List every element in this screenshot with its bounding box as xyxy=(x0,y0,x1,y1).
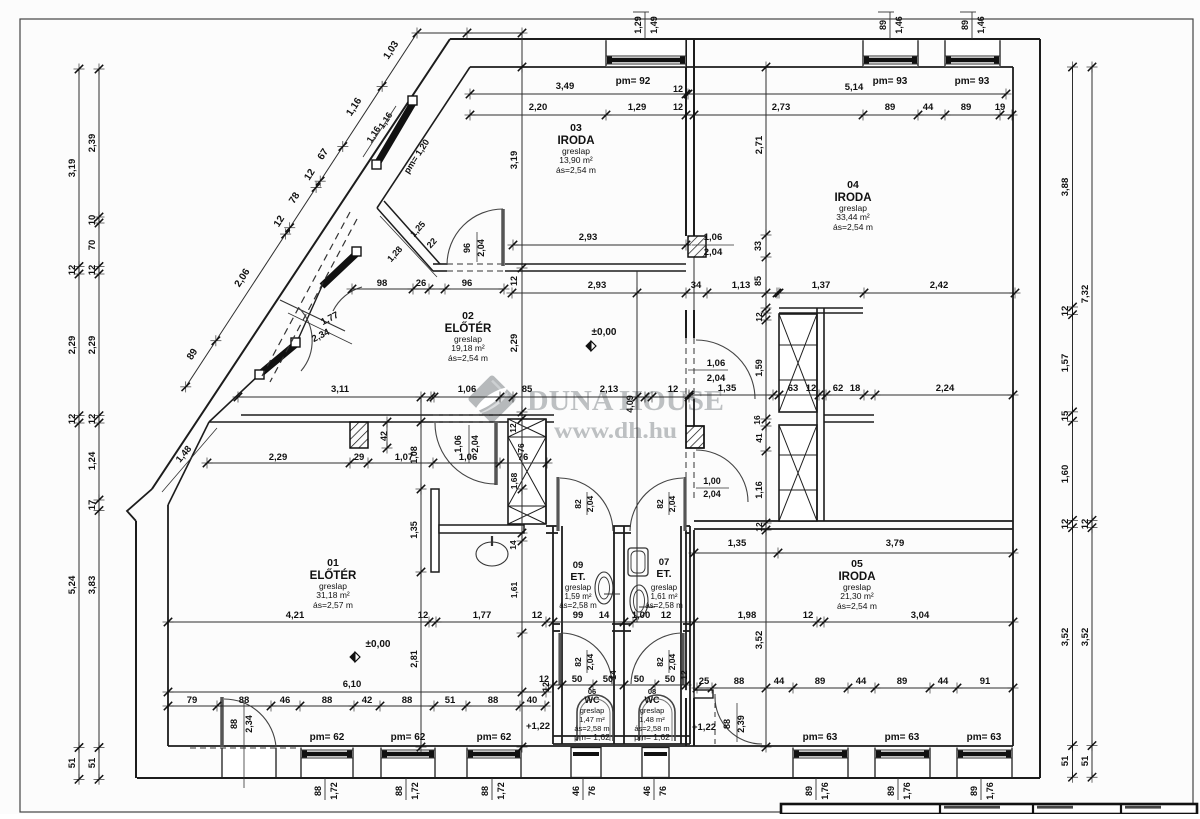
svg-text:2,71: 2,71 xyxy=(754,135,765,154)
svg-text:1,06: 1,06 xyxy=(707,358,726,369)
svg-text:pm= 1,62: pm= 1,62 xyxy=(574,732,610,742)
washbasin in room 01 xyxy=(476,542,508,566)
vertical dim line x522 xyxy=(521,33,523,747)
window W2 in diagonal wall xyxy=(322,247,361,286)
ET room 09 door leaf+arc xyxy=(556,477,559,531)
kitchen nook walls in room 01 xyxy=(431,489,439,572)
svg-text:50: 50 xyxy=(572,674,583,685)
svg-text:2,04: 2,04 xyxy=(476,239,486,257)
left chain A xyxy=(78,69,80,779)
inner face of diagonal wall xyxy=(377,67,470,208)
svg-text:88: 88 xyxy=(313,786,323,796)
toilet in room 07 xyxy=(630,585,648,617)
svg-text:5,14: 5,14 xyxy=(845,82,864,93)
svg-text:4,09: 4,09 xyxy=(625,395,635,413)
svg-text:89: 89 xyxy=(969,786,979,796)
WC small window right xyxy=(642,748,669,778)
svg-text:03: 03 xyxy=(570,122,582,134)
svg-text:1,35: 1,35 xyxy=(718,383,737,394)
svg-text:pm= 92: pm= 92 xyxy=(616,76,651,87)
svg-text:3,04: 3,04 xyxy=(911,610,930,621)
svg-text:82: 82 xyxy=(655,657,665,667)
row 79-40 xyxy=(168,705,545,707)
hall dashed line xyxy=(554,396,686,398)
svg-text:1,24: 1,24 xyxy=(87,451,98,470)
entrance door bottom-left: opening + leaf + arc xyxy=(222,748,276,778)
partition wall room02 corridor (1,25/1,28) xyxy=(377,208,433,271)
hatched pier in spine wall xyxy=(686,426,704,448)
svg-text:greslap: greslap xyxy=(651,583,678,592)
svg-text:ás=2,57 m: ás=2,57 m xyxy=(313,600,353,610)
svg-text:3,52: 3,52 xyxy=(1080,628,1091,647)
svg-text:1,77: 1,77 xyxy=(473,610,492,621)
svg-text:2,04: 2,04 xyxy=(667,653,677,670)
svg-text:88: 88 xyxy=(734,676,745,687)
svg-text:1,37: 1,37 xyxy=(812,280,831,291)
svg-text:2,04: 2,04 xyxy=(585,495,595,512)
svg-text:greslap: greslap xyxy=(565,583,592,592)
row 2,20-19 xyxy=(470,114,1012,116)
svg-text:09: 09 xyxy=(573,560,584,571)
vertical dim line x637 xyxy=(636,271,638,622)
svg-text:01: 01 xyxy=(327,557,339,569)
svg-text:1,76: 1,76 xyxy=(985,782,995,800)
svg-text:7,32: 7,32 xyxy=(1080,285,1091,304)
row 4,21-3,04 xyxy=(168,621,1013,623)
svg-text:ás=2,54 m: ás=2,54 m xyxy=(833,222,873,232)
svg-text:18: 18 xyxy=(850,383,861,394)
svg-text:42: 42 xyxy=(362,695,373,706)
door hall-05 corridor: dashed + arc xyxy=(685,452,687,500)
svg-text:12: 12 xyxy=(661,610,672,621)
svg-text:19,18 m²: 19,18 m² xyxy=(451,343,485,353)
svg-text:02: 02 xyxy=(462,310,474,322)
WC 08 door arc xyxy=(681,633,684,685)
wall stub above shafts xyxy=(779,307,863,309)
wall stub between shafts xyxy=(824,414,874,416)
svg-text:pm= 1,62: pm= 1,62 xyxy=(634,732,670,742)
svg-text:1,76: 1,76 xyxy=(820,782,830,800)
svg-text:1,08: 1,08 xyxy=(409,446,419,464)
svg-text:05: 05 xyxy=(851,558,863,570)
svg-text:3,19: 3,19 xyxy=(67,159,78,178)
row 2,29-76 xyxy=(207,462,547,464)
svg-text:3,88: 3,88 xyxy=(1060,178,1071,197)
svg-text:1,06: 1,06 xyxy=(704,232,723,243)
svg-text:12: 12 xyxy=(532,610,543,621)
svg-text:1,76: 1,76 xyxy=(902,782,912,800)
wall between room04 and room05 xyxy=(694,520,1013,522)
svg-text:25: 25 xyxy=(699,676,710,687)
svg-text:33: 33 xyxy=(753,241,763,251)
outer wall: right xyxy=(1039,39,1041,778)
svg-text:pm= 62: pm= 62 xyxy=(391,732,426,743)
svg-text:51: 51 xyxy=(1080,755,1091,766)
watermark Duna House logo xyxy=(467,374,516,423)
svg-text:89: 89 xyxy=(897,676,908,687)
svg-text:1,35: 1,35 xyxy=(728,538,747,549)
svg-text:46: 46 xyxy=(280,695,291,706)
door room03: leaf + arc xyxy=(501,209,505,266)
svg-text:26: 26 xyxy=(416,278,427,289)
svg-text:ás=2,54 m: ás=2,54 m xyxy=(837,601,877,611)
window pm62b bottom wall xyxy=(381,748,435,778)
svg-text:2,29: 2,29 xyxy=(67,336,78,355)
window pm62a bottom wall xyxy=(301,748,353,778)
svg-text:1,46: 1,46 xyxy=(894,16,904,34)
old wall dashed pair along diagonal xyxy=(262,212,350,376)
svg-text:ET.: ET. xyxy=(656,568,671,580)
wall between room01 and room02 (y415) xyxy=(241,414,554,416)
svg-text:17: 17 xyxy=(87,500,98,511)
svg-text:70: 70 xyxy=(87,240,98,251)
row 5,14 xyxy=(688,93,1006,95)
svg-text:12: 12 xyxy=(87,265,98,276)
ET block middle wall xyxy=(613,526,615,744)
svg-text:29: 29 xyxy=(354,452,365,463)
svg-text:12: 12 xyxy=(754,522,764,532)
window pm63a bottom wall xyxy=(793,748,848,778)
svg-text:1,06: 1,06 xyxy=(458,384,477,395)
svg-text:2,04: 2,04 xyxy=(667,495,677,512)
room05 west wall xyxy=(685,530,687,690)
svg-text:13,90 m²: 13,90 m² xyxy=(559,155,593,165)
window pm63b bottom wall xyxy=(875,748,930,778)
window pm63c bottom wall xyxy=(957,748,1012,778)
svg-text:50: 50 xyxy=(634,674,645,685)
svg-text:±0,00: ±0,00 xyxy=(366,639,391,650)
svg-text:ás=2,54 m: ás=2,54 m xyxy=(556,165,596,175)
svg-text:40: 40 xyxy=(527,695,538,706)
svg-text:44: 44 xyxy=(774,676,785,687)
window head dim pairs top xyxy=(644,12,646,39)
wall room01 / ET block xyxy=(545,419,547,524)
svg-text:89: 89 xyxy=(815,676,826,687)
svg-text:1,47 m²: 1,47 m² xyxy=(579,715,605,724)
svg-text:12: 12 xyxy=(754,312,764,322)
spine wall lower segment to bottom wall xyxy=(685,698,687,746)
svg-text:3,52: 3,52 xyxy=(754,631,765,650)
door room03: dashed opening xyxy=(447,263,503,265)
svg-text:16: 16 xyxy=(752,415,762,425)
row 1,35-3,79 xyxy=(694,552,1013,554)
svg-text:2,04: 2,04 xyxy=(707,373,726,384)
right shafts next to rooms 04/05 xyxy=(779,314,817,412)
svg-text:1,68: 1,68 xyxy=(509,472,519,489)
svg-text:12: 12 xyxy=(673,84,683,94)
svg-text:88: 88 xyxy=(480,786,490,796)
svg-text:1,16: 1,16 xyxy=(754,481,764,499)
svg-text:15: 15 xyxy=(1060,410,1071,421)
svg-text:12: 12 xyxy=(508,423,518,433)
svg-text:1,29: 1,29 xyxy=(633,16,643,34)
svg-text:42: 42 xyxy=(379,431,389,441)
row 2,93-2,42 xyxy=(512,292,1015,294)
svg-text:pm= 93: pm= 93 xyxy=(955,76,990,87)
svg-text:1,48 m²: 1,48 m² xyxy=(639,715,665,724)
outer wall: bottom xyxy=(137,777,1040,779)
svg-text:pm= 63: pm= 63 xyxy=(967,732,1002,743)
svg-text:2,81: 2,81 xyxy=(409,650,419,668)
svg-text:ás=2,58 m: ás=2,58 m xyxy=(559,601,597,610)
ET room 07 door leaf+arc xyxy=(683,477,686,531)
central shaft with X xyxy=(508,419,546,524)
svg-text:2,29: 2,29 xyxy=(509,334,520,353)
svg-text:33,44 m²: 33,44 m² xyxy=(836,212,870,222)
svg-text:2,04: 2,04 xyxy=(703,489,721,499)
ET block right wall xyxy=(680,526,682,744)
svg-text:12: 12 xyxy=(539,674,549,684)
diagonal dimension chain xyxy=(186,33,417,387)
diagonal notch at left corner xyxy=(127,489,152,521)
svg-text:63: 63 xyxy=(788,383,799,394)
svg-text:12: 12 xyxy=(87,414,98,425)
window pm92 top wall xyxy=(606,40,686,66)
svg-text:34: 34 xyxy=(691,280,702,291)
toilet in room 09 xyxy=(595,572,613,604)
svg-text:2,04: 2,04 xyxy=(470,435,480,453)
svg-text:82: 82 xyxy=(655,499,665,509)
svg-text:07: 07 xyxy=(659,557,670,568)
row 2,93 over room03 xyxy=(513,244,686,246)
svg-text:pm= 62: pm= 62 xyxy=(477,732,512,743)
svg-text:greslap: greslap xyxy=(580,706,605,715)
svg-text:2,93: 2,93 xyxy=(579,232,598,243)
shaft separating wall xyxy=(816,308,818,521)
svg-text:85: 85 xyxy=(522,384,533,395)
WC bottom wall xyxy=(553,735,690,737)
svg-text:2,42: 2,42 xyxy=(930,280,949,291)
svg-text:88: 88 xyxy=(394,786,404,796)
row 98-96 xyxy=(352,288,504,290)
svg-text:+1,22: +1,22 xyxy=(692,722,716,733)
svg-text:1,98: 1,98 xyxy=(738,610,757,621)
svg-text:76: 76 xyxy=(658,786,668,796)
svg-text:www.dh.hu: www.dh.hu xyxy=(554,418,677,443)
svg-text:2,73: 2,73 xyxy=(772,102,791,113)
WC 06 door arc xyxy=(558,633,561,685)
svg-text:82: 82 xyxy=(573,499,583,509)
svg-text:89: 89 xyxy=(878,20,888,30)
window W1 in diagonal wall (1,16) xyxy=(372,96,417,169)
svg-text:1,00: 1,00 xyxy=(632,610,651,621)
svg-text:6,10: 6,10 xyxy=(343,679,362,690)
svg-text:12: 12 xyxy=(806,383,817,394)
svg-text:89: 89 xyxy=(885,102,896,113)
level markers xyxy=(586,341,596,351)
svg-text:88: 88 xyxy=(488,695,499,706)
svg-text:2,39: 2,39 xyxy=(736,715,746,733)
svg-text:1,49: 1,49 xyxy=(649,16,659,34)
svg-text:greslap: greslap xyxy=(640,706,665,715)
door to yard near WC, stub + arc (88/2,39) xyxy=(694,690,713,698)
row 3,49 xyxy=(470,93,686,95)
svg-text:41: 41 xyxy=(754,433,764,443)
chain top horizontal segment xyxy=(417,32,522,34)
svg-text:99: 99 xyxy=(573,610,584,621)
svg-text:pm= 62: pm= 62 xyxy=(310,732,345,743)
svg-text:82: 82 xyxy=(573,657,583,667)
svg-text:12: 12 xyxy=(673,102,683,112)
svg-text:±0,00: ±0,00 xyxy=(592,327,617,338)
door room04 arc xyxy=(696,340,755,399)
svg-text:2,04: 2,04 xyxy=(704,247,723,258)
vertical dim line x421 xyxy=(420,397,422,747)
sink in room 07 xyxy=(628,548,648,576)
svg-text:1,00: 1,00 xyxy=(703,476,721,486)
outer wall: diagonal (north-west) xyxy=(152,39,450,489)
svg-text:96: 96 xyxy=(462,243,472,253)
spine wall between hall and rooms 04/05 xyxy=(685,40,687,236)
svg-text:1,72: 1,72 xyxy=(496,782,506,800)
svg-text:pm= 93: pm= 93 xyxy=(873,76,908,87)
svg-text:12: 12 xyxy=(509,276,519,286)
svg-text:2,24: 2,24 xyxy=(936,383,955,394)
svg-text:85: 85 xyxy=(753,276,763,286)
svg-text:12: 12 xyxy=(67,265,78,276)
svg-text:ás=2,54 m: ás=2,54 m xyxy=(448,353,488,363)
svg-text:12: 12 xyxy=(668,384,679,395)
svg-text:1,29: 1,29 xyxy=(628,102,647,113)
svg-text:04: 04 xyxy=(847,179,859,191)
svg-text:76: 76 xyxy=(587,786,597,796)
svg-text:1,13: 1,13 xyxy=(732,280,751,291)
window pm93b top wall xyxy=(945,40,1000,66)
svg-text:ET.: ET. xyxy=(570,571,585,583)
left chain B xyxy=(98,69,100,779)
hatched pier at room03/04 corridor corner xyxy=(688,236,706,257)
svg-text:3,52: 3,52 xyxy=(1060,628,1071,647)
svg-text:1,59 m²: 1,59 m² xyxy=(564,592,591,601)
svg-text:12: 12 xyxy=(803,610,814,621)
svg-text:51: 51 xyxy=(445,695,456,706)
svg-text:51: 51 xyxy=(1060,755,1071,766)
svg-text:3,19: 3,19 xyxy=(509,151,520,170)
svg-text:21,30 m²: 21,30 m² xyxy=(840,591,874,601)
row 25-91 xyxy=(697,687,1013,689)
svg-text:89: 89 xyxy=(960,20,970,30)
outer wall: top, room 03/04 xyxy=(450,38,1040,40)
svg-text:88: 88 xyxy=(722,719,732,729)
svg-text:14: 14 xyxy=(508,540,518,550)
svg-text:12: 12 xyxy=(67,414,78,425)
svg-text:1,61 m²: 1,61 m² xyxy=(650,592,677,601)
svg-text:1,72: 1,72 xyxy=(410,782,420,800)
svg-text:44: 44 xyxy=(938,676,949,687)
svg-text:pm= 63: pm= 63 xyxy=(803,732,838,743)
svg-text:96: 96 xyxy=(462,278,473,289)
svg-text:WC: WC xyxy=(645,695,660,705)
svg-text:89: 89 xyxy=(804,786,814,796)
svg-text:31,18 m²: 31,18 m² xyxy=(316,590,350,600)
right chain C xyxy=(1072,67,1074,777)
window pm93a top wall xyxy=(863,40,918,66)
svg-text:5,24: 5,24 xyxy=(67,575,78,594)
svg-text:76: 76 xyxy=(516,443,526,453)
svg-text:88: 88 xyxy=(229,719,239,729)
svg-text:88: 88 xyxy=(402,695,413,706)
WC 06 arch niche xyxy=(577,695,613,741)
wall between room 02 and room 03 xyxy=(433,263,447,265)
svg-text:2,20: 2,20 xyxy=(529,102,548,113)
svg-text:12: 12 xyxy=(1080,519,1091,530)
hatched pier in wall y415 xyxy=(350,422,368,448)
svg-text:62: 62 xyxy=(833,383,844,394)
svg-text:1,59: 1,59 xyxy=(754,359,764,377)
svg-text:2,13: 2,13 xyxy=(600,384,619,395)
svg-text:WC: WC xyxy=(585,695,600,705)
window pm62c bottom wall xyxy=(467,748,521,778)
svg-text:10: 10 xyxy=(87,215,98,226)
door room01-02: dashed opening xyxy=(433,414,500,416)
window W3 in diagonal wall xyxy=(255,338,300,379)
svg-text:1,06: 1,06 xyxy=(453,435,463,453)
row 50s xyxy=(553,684,686,686)
double door leaf and arcs in diagonal zone xyxy=(280,300,345,331)
svg-text:3,49: 3,49 xyxy=(556,81,575,92)
svg-text:2,04: 2,04 xyxy=(585,653,595,670)
svg-text:2,34: 2,34 xyxy=(244,715,254,733)
svg-text:12: 12 xyxy=(1060,519,1071,530)
svg-text:79: 79 xyxy=(187,695,198,706)
svg-text:2,29: 2,29 xyxy=(87,336,98,355)
row 6,10 xyxy=(168,691,546,693)
svg-text:1,72: 1,72 xyxy=(329,782,339,800)
svg-text:1,61: 1,61 xyxy=(509,581,519,598)
svg-text:44: 44 xyxy=(856,676,867,687)
svg-text:46: 46 xyxy=(571,786,581,796)
svg-text:pm= 63: pm= 63 xyxy=(885,732,920,743)
svg-text:1,60: 1,60 xyxy=(1060,465,1071,484)
svg-text:46: 46 xyxy=(642,786,652,796)
row 1,35-2,24 xyxy=(689,394,1013,396)
svg-text:ás=2,58 m: ás=2,58 m xyxy=(645,601,683,610)
vertical dim line x766 xyxy=(765,67,767,747)
free-standing hatched pier end of spine wall xyxy=(693,257,695,310)
svg-text:1,46: 1,46 xyxy=(976,16,986,34)
WC small window left xyxy=(571,748,601,778)
ET/WC middle wall xyxy=(553,623,560,625)
svg-text:89: 89 xyxy=(886,786,896,796)
svg-text:12: 12 xyxy=(418,610,429,621)
row 3,11-12 xyxy=(238,396,689,398)
svg-text:1,35: 1,35 xyxy=(409,521,419,539)
svg-text:19: 19 xyxy=(995,102,1006,113)
svg-text:14: 14 xyxy=(608,670,618,680)
svg-text:88: 88 xyxy=(322,695,333,706)
door room01-02: leaf + arc xyxy=(494,423,498,485)
outer wall: left xyxy=(135,521,137,778)
svg-text:12: 12 xyxy=(1060,306,1071,317)
svg-text:2,29: 2,29 xyxy=(269,452,288,463)
svg-text:98: 98 xyxy=(377,278,388,289)
svg-text:3,79: 3,79 xyxy=(886,538,905,549)
svg-text:4,21: 4,21 xyxy=(286,610,305,621)
svg-text:3,83: 3,83 xyxy=(87,576,98,595)
bottom window dim pairs xyxy=(324,778,326,800)
svg-text:1,57: 1,57 xyxy=(1060,354,1071,373)
svg-text:89: 89 xyxy=(961,102,972,113)
svg-text:+1,22: +1,22 xyxy=(526,721,550,732)
svg-text:12: 12 xyxy=(679,670,689,680)
right chain D xyxy=(1091,67,1093,777)
WC 08 arch niche xyxy=(639,695,675,741)
svg-text:44: 44 xyxy=(923,102,934,113)
svg-text:14: 14 xyxy=(599,610,610,621)
svg-text:2,39: 2,39 xyxy=(87,134,98,153)
svg-text:91: 91 xyxy=(980,676,991,687)
title block xyxy=(781,804,1197,814)
